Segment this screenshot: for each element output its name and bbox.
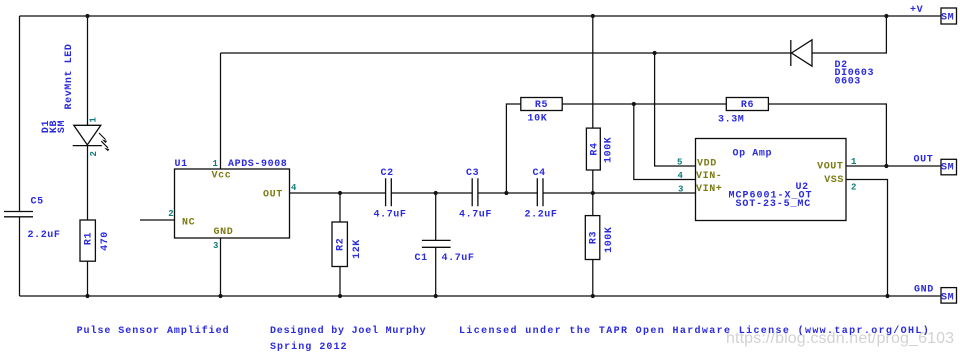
svg-text:RevMnt LED: RevMnt LED [64, 43, 75, 109]
wire U1 OUT to C2 [290, 192, 386, 194]
junction R4 R3 signal [591, 191, 595, 195]
resistor R5 [521, 98, 562, 111]
resistor R4 [586, 128, 600, 170]
svg-text:470: 470 [100, 231, 111, 251]
IC U1 APDS-9008 [175, 169, 290, 238]
svg-text:C4: C4 [533, 168, 546, 179]
svg-text:1: 1 [89, 117, 99, 123]
junction R1 GND bus [85, 294, 89, 298]
junction VSS GND bus [885, 294, 889, 298]
svg-text:SM: SM [57, 120, 68, 133]
svg-text:SM: SM [941, 162, 954, 173]
junction R4 top [591, 14, 595, 18]
resistor R3 [585, 216, 600, 260]
svg-text:+V: +V [910, 5, 923, 16]
capacitor C3 [472, 178, 478, 206]
wire +V top bus [20, 15, 942, 17]
wire R3 branch [592, 193, 594, 296]
wire R4 top to +V bus [592, 16, 594, 128]
svg-text:2: 2 [89, 150, 99, 156]
svg-text:VDD: VDD [697, 159, 717, 170]
svg-text:C2: C2 [381, 168, 394, 179]
wire R5 tap [506, 104, 520, 193]
wire VIN- feedback feed [634, 104, 696, 180]
wire LED D1 cathode to R1 [87, 146, 89, 220]
svg-text:2.2uF: 2.2uF [28, 230, 61, 241]
LED D1 [73, 125, 110, 151]
svg-text:OUT: OUT [263, 190, 283, 201]
svg-text:5: 5 [677, 158, 683, 168]
svg-text:SM: SM [941, 292, 954, 303]
svg-text:1: 1 [213, 159, 219, 169]
junction LED top [85, 14, 89, 18]
svg-text:Vcc: Vcc [212, 171, 232, 182]
wire R5 to R6 node [562, 103, 726, 105]
diode D2 [791, 40, 812, 66]
wire R6 to VOUT node [768, 104, 886, 166]
junction R5 tap signal [504, 191, 508, 195]
svg-text:C5: C5 [31, 197, 44, 208]
wire U1 Vcc riser [220, 53, 222, 169]
svg-text:R6: R6 [741, 100, 754, 111]
junction R5 R6 VIN- node [632, 102, 636, 106]
resistor R6 [726, 98, 768, 111]
wire C4 to U2 VIN+ [543, 192, 695, 194]
svg-text:100K: 100K [604, 137, 615, 163]
op-amp U2 MCP6001 [696, 139, 847, 221]
wire C5 to GND bus [19, 217, 21, 296]
wire VDD feed [655, 53, 696, 166]
capacitor C2 [386, 178, 392, 206]
svg-text:Designed by Joel Murphy: Designed by Joel Murphy [270, 325, 426, 337]
wire VOUT to OUT port [846, 165, 941, 167]
svg-text:4.7uF: 4.7uF [442, 253, 475, 264]
svg-text:VSS: VSS [824, 175, 844, 186]
wire R1 to GND bus [87, 261, 89, 296]
port OUT [941, 159, 957, 175]
svg-text:SM: SM [941, 12, 954, 23]
wire LED D1 anode [87, 16, 89, 125]
wire C1 branch [435, 193, 437, 296]
wire C2 to C3 [392, 192, 473, 194]
svg-text:2.2uF: 2.2uF [525, 210, 558, 221]
svg-text:C1: C1 [415, 253, 428, 264]
svg-text:12K: 12K [352, 239, 363, 259]
svg-text:Op Amp: Op Amp [733, 149, 773, 160]
svg-text:OUT: OUT [914, 154, 934, 165]
port +V [941, 8, 957, 24]
watermark [726, 330, 954, 348]
svg-text:R4: R4 [590, 142, 601, 155]
port GND [941, 288, 957, 304]
wire R2 branch [339, 193, 341, 296]
wire D2 anode to +V bus [812, 16, 886, 53]
svg-text:VIN+: VIN+ [696, 184, 722, 195]
svg-text:R5: R5 [535, 100, 548, 111]
svg-text:VOUT: VOUT [817, 162, 843, 173]
svg-text:Pulse Sensor Amplified: Pulse Sensor Amplified [77, 325, 230, 337]
wire U1 NC stub [140, 219, 175, 221]
junction R2 signal [338, 191, 342, 195]
svg-text:10K: 10K [528, 114, 548, 125]
capacitor C5 [4, 212, 33, 217]
svg-text:3: 3 [213, 241, 219, 251]
junction D2 riser top [884, 14, 888, 18]
svg-text:2: 2 [168, 209, 174, 219]
svg-text:4: 4 [291, 183, 297, 193]
wire Vcc rail to D2 cathode [221, 52, 791, 54]
svg-text:R3: R3 [589, 231, 600, 244]
svg-text:SOT-23-5_MC: SOT-23-5_MC [736, 199, 812, 210]
svg-text:Spring 2012: Spring 2012 [270, 341, 348, 353]
D1 refdes labels D1 KB SM [41, 120, 68, 133]
junction C1 GND bus [434, 294, 438, 298]
svg-text:3: 3 [678, 185, 684, 195]
resistor R1 [80, 220, 95, 261]
wire VSS to GND bus [846, 180, 888, 297]
svg-text:4: 4 [678, 171, 684, 181]
svg-text:NC: NC [182, 218, 195, 229]
wire R4 bottom [592, 170, 594, 193]
capacitor C1 [422, 240, 451, 247]
svg-text:R2: R2 [335, 238, 346, 251]
svg-text:3.3M: 3.3M [718, 115, 744, 126]
svg-text:GND: GND [214, 227, 234, 238]
svg-text:Licensed under the TAPR Open H: Licensed under the TAPR Open Hardware Li… [459, 325, 930, 337]
junction VOUT node [884, 164, 888, 168]
svg-text:VIN-: VIN- [696, 171, 722, 182]
svg-text:R1: R1 [83, 232, 94, 245]
junction R2 GND bus [338, 294, 342, 298]
svg-text:GND: GND [914, 284, 934, 295]
wire GND bottom bus [20, 295, 942, 297]
svg-text:4.7uF: 4.7uF [374, 210, 407, 221]
svg-text:APDS-9008: APDS-9008 [228, 159, 287, 170]
junction VDD on Vcc rail [653, 51, 657, 55]
svg-text:100K: 100K [604, 226, 615, 252]
wire U1 GND to bus [220, 238, 222, 296]
svg-text:4.7uF: 4.7uF [459, 210, 492, 221]
capacitor C4 [537, 178, 543, 206]
svg-text:0603: 0603 [835, 76, 861, 87]
junction C1 signal [434, 191, 438, 195]
resistor R2 [332, 222, 347, 267]
junction U1 GND bus [218, 294, 222, 298]
svg-text:C3: C3 [466, 168, 479, 179]
svg-text:U1: U1 [175, 159, 188, 170]
svg-text:1: 1 [851, 157, 857, 167]
junction R3 GND bus [591, 294, 595, 298]
svg-text:2: 2 [851, 183, 857, 193]
wire left branch to C5 [19, 16, 21, 211]
wire C3 to C4 [478, 192, 537, 194]
